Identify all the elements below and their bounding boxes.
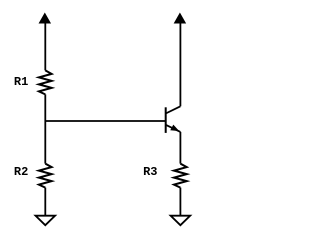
power arrow (right VCC) <box>175 14 186 24</box>
wire <box>179 188 181 216</box>
wire <box>44 94 46 163</box>
transistor Q1 emitter lead <box>166 125 181 132</box>
transistor Q1 collector lead <box>166 106 181 113</box>
wire <box>179 132 181 164</box>
ground (left) <box>36 216 56 226</box>
svg-text:R1: R1 <box>14 75 28 89</box>
wire (base wire to transistor) <box>45 120 165 122</box>
power arrow (left VCC) <box>39 14 50 24</box>
resistor R3 <box>174 164 187 188</box>
wire <box>44 22 46 70</box>
transistor Q1 emitter arrowhead <box>171 125 178 130</box>
wire <box>179 22 181 106</box>
resistor R2 <box>39 164 52 188</box>
svg-text:R2: R2 <box>14 165 28 179</box>
svg-text:R3: R3 <box>143 165 157 179</box>
wire <box>44 188 46 216</box>
transistor Q1 base bar <box>165 107 167 133</box>
ground (right) <box>171 216 191 226</box>
resistor R1 <box>39 70 52 94</box>
